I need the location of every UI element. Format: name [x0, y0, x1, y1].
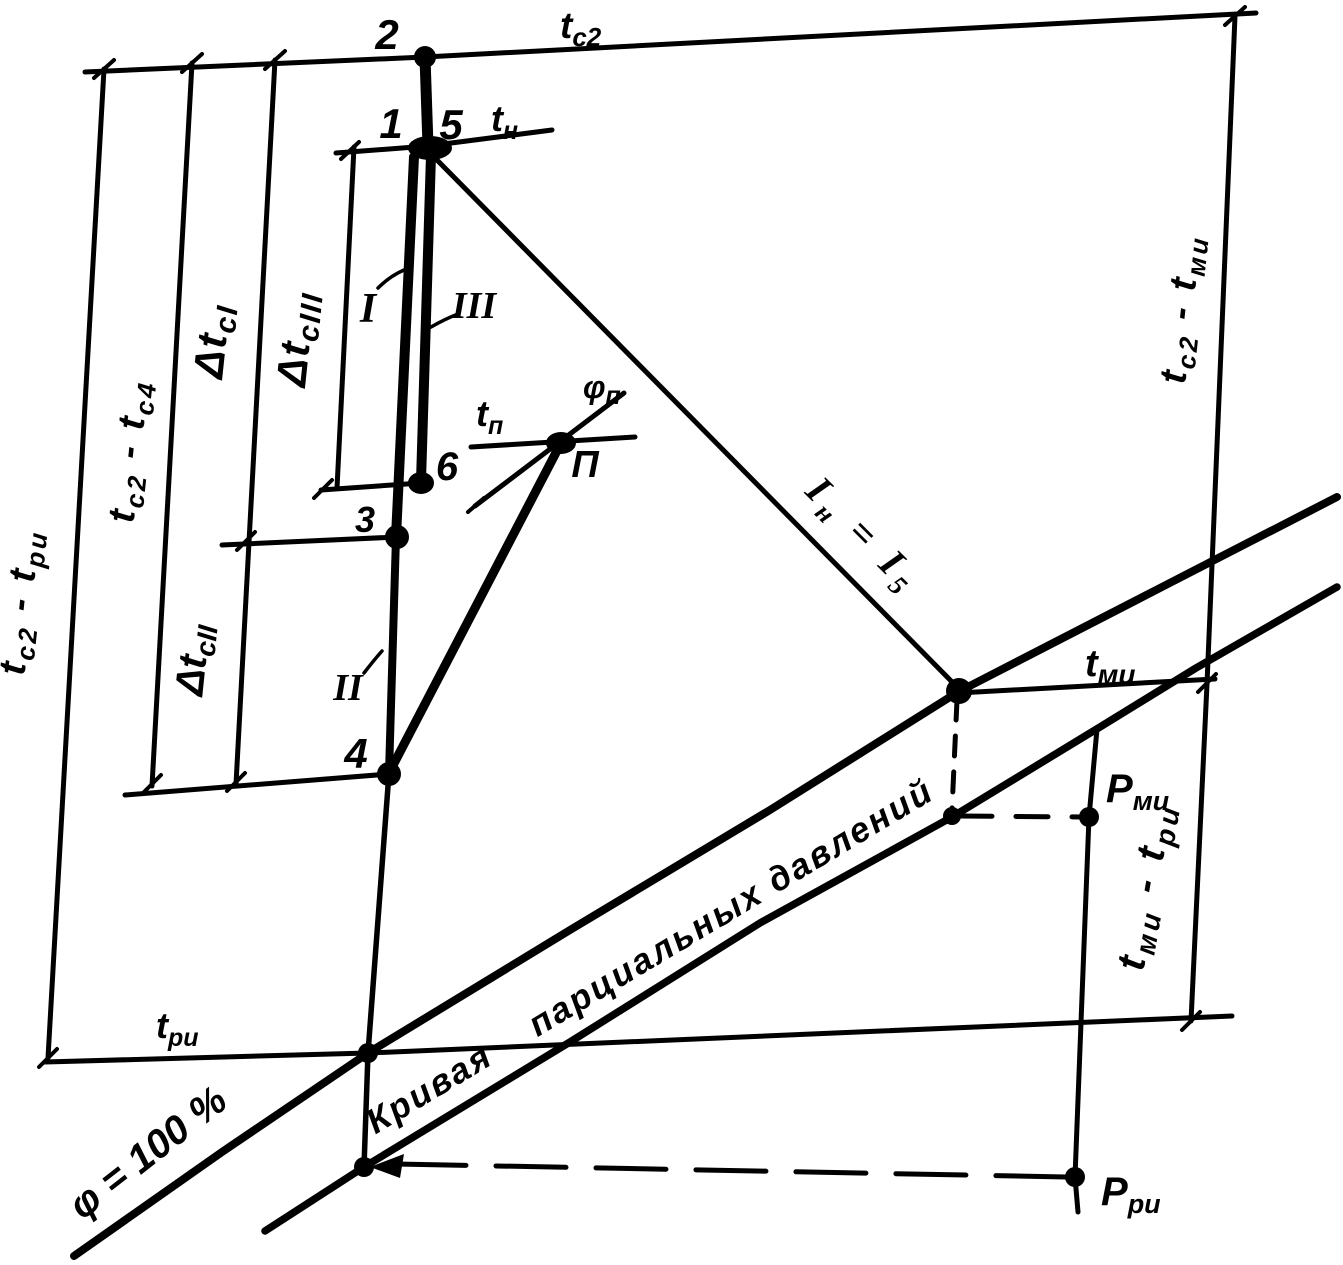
- wire: process line I (1 to 3): [396, 157, 414, 537]
- wire: process line 4 to P (thick diagonal): [389, 443, 561, 773]
- svg-text:I: I: [359, 286, 378, 332]
- node P_ri: [1065, 1167, 1085, 1187]
- wire: t_mi level line: [958, 679, 1215, 693]
- wire: dimension line dt_cI / dt_cII: [236, 60, 275, 784]
- svg-text:ΔtcII: ΔtcII: [167, 621, 224, 700]
- svg-text:tн: tн: [491, 98, 518, 145]
- svg-text:Pри: Pри: [1101, 1170, 1161, 1219]
- svg-text:tми: tми: [1085, 643, 1135, 690]
- svg-text:2: 2: [374, 11, 398, 58]
- leader for roman III: [431, 314, 458, 327]
- wire: process line III (5 to 6): [421, 155, 431, 481]
- wire: t_p line through node P: [471, 437, 635, 447]
- svg-text:tп: tп: [476, 393, 503, 440]
- node 3: [385, 525, 409, 549]
- wire: level line through node 6: [321, 483, 421, 490]
- svg-text:tc2 - tри: tc2 - tри: [0, 527, 54, 678]
- arrow tick left end of t_n line: [341, 142, 359, 159]
- wire: process line 2-1 (thick vertical): [425, 57, 428, 146]
- wire: left dimension line t_c2 - t_ri: [48, 69, 104, 1058]
- svg-text:1: 1: [379, 100, 402, 147]
- node 2: [414, 46, 436, 68]
- wire: t_n level line: [336, 130, 552, 153]
- wire: level line through node 3: [222, 537, 397, 545]
- svg-text:II: II: [332, 667, 364, 709]
- arrow tick at 3-level crossing of line C: [237, 532, 255, 550]
- node P: [546, 432, 576, 454]
- node P_mi: [1079, 807, 1099, 827]
- svg-text:tми - tри: tми - tри: [1109, 798, 1187, 974]
- svg-text:Iн = I5: Iн = I5: [793, 467, 931, 605]
- node 4: [377, 762, 401, 786]
- node on pressure curve at t_ri level: [354, 1157, 374, 1177]
- svg-text:ΔtcIII: ΔtcIII: [267, 288, 330, 391]
- arrow tick lower end of phi_p line: [468, 498, 484, 512]
- arrowhead of long dashed line: [370, 1154, 404, 1178]
- leader for roman I: [378, 270, 404, 288]
- node 6: [408, 472, 434, 494]
- svg-text:6: 6: [436, 445, 459, 489]
- arrow tick at 4-level and line B bottom: [143, 775, 161, 793]
- svg-text:tc2 - tми: tc2 - tми: [1152, 232, 1214, 386]
- svg-text:3: 3: [355, 499, 375, 540]
- wire: process line II (3 to 4): [389, 537, 396, 773]
- wire: dashed horizontal to P_mi: [960, 816, 1080, 817]
- wire: long dashed line to P_ri: [396, 1164, 1066, 1177]
- node t_mi junction: [946, 678, 972, 704]
- svg-text:ΔtcI: ΔtcI: [184, 301, 245, 383]
- wire: phi=100% saturation curve: [74, 497, 1337, 1256]
- wire: vertical line P_mi - P_ri: [1075, 729, 1097, 1212]
- node on pressure curve at P_mi level: [943, 807, 961, 825]
- svg-text:φп: φп: [583, 369, 621, 410]
- arrow tick top right corner: [1225, 7, 1245, 25]
- arrow tick bottom of line A: [39, 1049, 57, 1067]
- wire: dashed vertical from junction to pressure curve: [952, 700, 957, 810]
- wire: t_c2 isotherm (top line): [85, 13, 1256, 72]
- arrow tick right end of t_ri line: [1182, 1012, 1200, 1030]
- wire: phi_p line through node P: [475, 393, 624, 506]
- svg-text:Кривая парциальных давлений: Кривая парциальных давлений: [359, 771, 940, 1142]
- svg-text:tc2: tc2: [560, 5, 602, 52]
- wire: dimension line t_c2 - t_c4: [152, 63, 192, 786]
- wire: partial pressure curve: [265, 587, 1337, 1231]
- arrow tick top of line A: [94, 60, 114, 78]
- node 1/5: [408, 136, 452, 160]
- svg-text:П: П: [571, 444, 599, 486]
- wire: right edge dimension line t_c2-t_mi / t_mi-t_ri: [1191, 16, 1235, 1021]
- svg-text:4: 4: [343, 730, 367, 777]
- svg-text:tc2 - tc4: tc2 - tc4: [101, 377, 163, 525]
- arrow tick top of line B: [182, 54, 202, 72]
- arrow tick right end of t_mi line: [1198, 674, 1216, 692]
- arrow tick top of line C: [265, 51, 285, 69]
- svg-text:tри: tри: [156, 1005, 199, 1052]
- arrow tick at 4-level and line C bottom: [227, 773, 245, 791]
- wire: level line through node 4: [125, 774, 389, 795]
- wire: t_ri isotherm (bottom line): [45, 1016, 1232, 1062]
- arrow tick left end of 6-level line: [314, 480, 332, 498]
- wire: I_n = I_5 diagonal: [437, 160, 960, 690]
- wire: dimension line dt_cIII: [337, 147, 354, 488]
- svg-text:III: III: [451, 285, 498, 327]
- node t_ri junction: [358, 1043, 378, 1063]
- svg-text:5: 5: [439, 101, 463, 148]
- leader for roman II: [364, 651, 382, 673]
- wire: vertical continuation below node 4 to t_ri and lower node: [364, 773, 389, 1167]
